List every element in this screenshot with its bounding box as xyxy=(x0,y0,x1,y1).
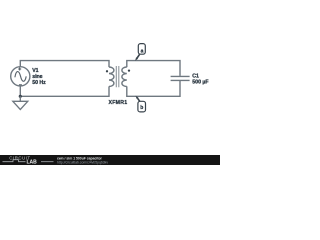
svg-text:http://circuitlab.com/c/4vb5pq: http://circuitlab.com/c/4vb5pq63kv xyxy=(57,160,108,164)
transformer XFMR1 secondary coil xyxy=(122,67,127,87)
node a flag arrow xyxy=(135,54,140,60)
wire: top wire from source to transformer primary xyxy=(20,61,109,68)
node b flag arrow xyxy=(136,96,140,102)
transformer secondary polarity dot xyxy=(128,69,130,71)
watermark bar xyxy=(0,155,220,165)
voltage source minus sign xyxy=(19,84,22,86)
node a flag box xyxy=(138,44,145,55)
ground symbol xyxy=(13,96,28,109)
voltage source V1 sine symbol xyxy=(15,72,26,82)
transformer core lines xyxy=(116,66,119,87)
transformer primary polarity dot xyxy=(106,70,108,72)
junction dot at source bottom / ground node xyxy=(19,95,22,98)
svg-text:50 Hz: 50 Hz xyxy=(32,80,46,86)
voltage source V1 circle xyxy=(11,67,30,86)
svg-text:LAB: LAB xyxy=(27,160,38,166)
wire: secondary top wire to capacitor xyxy=(127,61,180,76)
transformer XFMR1 primary coil xyxy=(109,67,114,87)
svg-text:500 µF: 500 µF xyxy=(192,79,208,85)
svg-text:b: b xyxy=(140,105,143,111)
voltage source plus sign xyxy=(18,68,21,71)
CircuitLab logo LAB line xyxy=(3,160,54,166)
capacitor C1 plates xyxy=(171,76,190,80)
node b flag box xyxy=(138,101,146,112)
svg-text:a: a xyxy=(141,48,144,54)
svg-text:XFMR1: XFMR1 xyxy=(109,100,128,106)
wire: bottom wire from source to transformer primary xyxy=(20,86,109,96)
wire: secondary bottom wire to capacitor xyxy=(127,81,180,96)
